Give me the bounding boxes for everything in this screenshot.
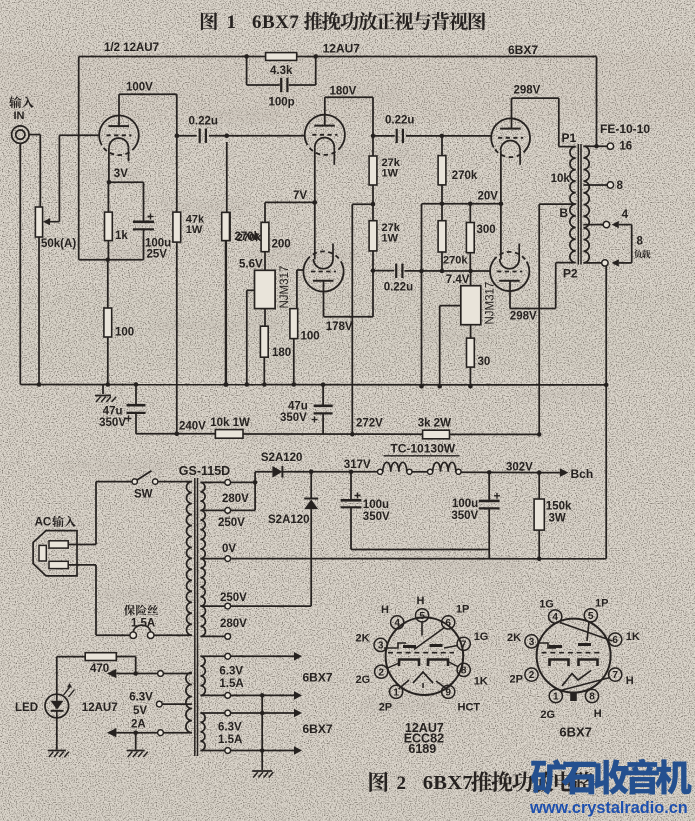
svg-text:FE-10-10: FE-10-10 [600,122,650,136]
svg-text:100u: 100u [363,499,389,511]
wire AC live [68,544,96,546]
LED emission arrows [64,688,70,696]
diode D1 S2A120 [272,466,282,478]
diode D2 S2A120 vertical [310,472,312,498]
svg-text:1G: 1G [474,631,489,643]
resistor 270k grid leak V2a [226,142,228,212]
resistor 100 feedback leg [107,260,109,308]
wire 100 to ground rail [293,339,295,385]
svg-text:1.5A: 1.5A [218,734,242,746]
wire secondary 16 tap [583,145,607,147]
T2 primary winding [570,147,576,205]
capacitor C2 0.22u upper [373,135,395,137]
resistor 27k 1W lower [369,221,377,251]
tap 250V upper [200,509,224,511]
wire V1a plate to 100V node [118,94,120,126]
svg-text:6BX7: 6BX7 [303,722,333,736]
capacitor 47u 350V mid [322,385,324,405]
pinout diagram 12AU7 base [386,617,464,695]
ground symbol 12AU7 heater [127,750,145,752]
wire U1 adj to ground rail [247,289,255,291]
wire C2 to 6BX7 upper grid [442,135,492,137]
svg-text:7: 7 [461,639,467,650]
svg-text:280V: 280V [222,493,249,505]
svg-text:1: 1 [553,692,559,703]
svg-text:HCT: HCT [458,702,481,714]
wire V2a cathode to 7V node [314,147,316,202]
svg-text:2G: 2G [540,709,555,721]
svg-text:10k: 10k [551,173,571,185]
tap heater 2b [200,750,224,752]
svg-text:240V: 240V [179,421,206,433]
svg-text:4: 4 [552,612,558,623]
svg-text:7: 7 [612,670,618,681]
svg-text:5: 5 [419,611,425,622]
svg-text:H: H [381,604,389,616]
resistor 1k cathode [107,182,109,212]
svg-text:1.5A: 1.5A [131,618,155,630]
svg-text:H: H [417,595,425,607]
svg-text:6BX7: 6BX7 [423,772,473,794]
svg-text:3V: 3V [114,168,128,180]
svg-text:1W: 1W [382,168,399,180]
wire AC neutral [68,564,96,566]
wire V2b grid lead [297,269,304,271]
arrow Bch output [539,472,560,474]
pinout 6BX7 pins [549,610,562,623]
svg-text:280V: 280V [220,618,247,630]
svg-text:2P: 2P [510,674,523,686]
svg-text:8: 8 [589,692,595,703]
tap 280V top [200,481,224,483]
fuse 1.5A [96,634,130,636]
T1 heater winding 6.3V first [200,656,205,695]
wire V1a cathode 3V node [108,148,110,183]
resistor 100 grid V2b [296,270,298,309]
svg-text:8: 8 [617,180,624,192]
svg-text:47u: 47u [103,406,123,418]
pinout 12AU7 pins [416,609,429,622]
svg-text:3k 2W: 3k 2W [418,418,451,430]
svg-text:IN: IN [14,110,25,122]
wire secondary 8 tap [583,184,607,186]
svg-text:4.3k: 4.3k [270,65,293,77]
svg-text:www.crystalradio.cn: www.crystalradio.cn [529,799,688,817]
tap heater 1a [200,655,224,657]
svg-text:180V: 180V [330,86,357,98]
svg-text:7.4V: 7.4V [446,274,470,286]
svg-text:302V: 302V [506,462,533,474]
wire 100V node down to coupling [176,94,178,136]
wire 7V node [265,201,315,203]
svg-text:2: 2 [529,670,535,681]
regulator NJM317 U1 [264,252,266,271]
wire 270k to 20V line [441,185,443,204]
wire V3 cathode to 20V line [500,150,502,204]
wire 100 to ground rail [107,337,109,385]
svg-text:2K: 2K [507,632,521,644]
tap 250V lower [200,605,224,607]
wire line A 20V [422,203,501,205]
switch SW [96,481,132,483]
svg-text:100V: 100V [126,82,153,94]
wire common tap ground riser [605,266,607,559]
capacitor 47u 350V left [135,385,137,405]
svg-text:1: 1 [393,687,399,698]
wire capacitor ground link [351,549,489,551]
triode V4 6BX7 lower inverted [490,260,529,291]
svg-text:9: 9 [445,687,451,698]
capacitor 100u 350V first [350,472,352,499]
svg-text:47u: 47u [288,401,308,413]
wire rectifier riser top [254,472,256,511]
svg-text:6.3V: 6.3V [129,692,153,704]
svg-text:P1: P1 [562,131,577,145]
svg-text:50k(A): 50k(A) [41,238,76,250]
resistor 150k 3W bleeder [538,473,540,499]
svg-text:20V: 20V [478,191,499,203]
svg-text:LED: LED [15,702,38,714]
svg-text:470: 470 [90,663,109,675]
svg-text:2P: 2P [379,702,392,714]
svg-text:3: 3 [529,637,535,648]
resistor 470 LED feed [135,657,137,674]
svg-text:12AU7: 12AU7 [82,702,118,714]
pinout diagram 6BX7 base [537,619,611,693]
svg-text:6BX7: 6BX7 [252,12,299,33]
watermark crystalradio logo [531,759,566,795]
wire B tap [539,203,576,205]
svg-text:1P: 1P [595,598,608,610]
svg-text:4: 4 [622,209,629,221]
svg-text:12AU7: 12AU7 [323,42,361,56]
svg-text:350V: 350V [363,511,390,523]
svg-text:1W: 1W [186,224,203,236]
tap 12AU7 heater bottom [164,732,192,734]
svg-text:3W: 3W [549,513,566,525]
svg-text:270k: 270k [443,255,468,267]
svg-text:NJM317: NJM317 [279,266,291,309]
triode V2a 12AU7 upper [305,115,345,147]
wire load loop 8 ohm [631,225,633,263]
svg-text:1K: 1K [626,631,640,643]
wire 270k to ground rail [225,241,227,385]
svg-text:2K: 2K [356,633,370,645]
wire wiper to grid [58,135,60,222]
svg-text:S2A120: S2A120 [261,452,303,464]
wire B+ 317V line [255,471,272,473]
svg-text:6BX7: 6BX7 [303,671,333,685]
wire V4 plate to 298V to P2 [509,281,511,309]
wire cathode riser to V4 cathode [500,204,502,260]
wire V2b plate to 178V node [323,281,325,317]
svg-text:1W: 1W [382,233,399,245]
svg-text:6189: 6189 [408,742,436,756]
svg-text:272V: 272V [356,418,383,430]
svg-text:2: 2 [378,667,384,678]
capacitor 100p [280,78,282,92]
ground symbol LED [48,750,66,752]
svg-text:H: H [626,675,634,687]
svg-text:250V: 250V [218,517,245,529]
svg-text:178V: 178V [326,321,353,333]
svg-text:0.22u: 0.22u [385,115,414,127]
svg-text:100: 100 [301,331,320,343]
scan tone bands [0,52,695,122]
svg-text:10k 1W: 10k 1W [210,417,250,429]
pinout 12AU7 internal structure [388,652,454,654]
wire 272V segment [243,433,423,435]
wire B+ riser to 272V line [351,204,353,434]
svg-text:1G: 1G [539,599,554,611]
svg-text:180: 180 [272,347,291,359]
resistor 270k lower bias [441,204,443,221]
ground symbol heater [252,770,272,772]
LED indicator [56,657,58,694]
svg-text:298V: 298V [514,85,541,97]
resistor 180 [264,309,266,327]
resistor 27k 1W upper [369,156,377,185]
wire 47k to 240V rail [176,242,178,434]
svg-text:1K: 1K [474,676,488,688]
wire 270k left to ground rail [225,241,227,385]
resistor 47k 1W plate load [176,136,178,212]
svg-text:6: 6 [612,635,618,646]
svg-text:300: 300 [477,224,496,236]
svg-text:298V: 298V [510,311,537,323]
wire jack ground drop [19,143,21,384]
resistor 4.3k [266,53,297,61]
connector AC plug [33,531,77,576]
wire D1 to choke [282,471,380,473]
svg-text:150k: 150k [546,501,572,513]
figure 2 caption [369,772,388,792]
svg-text:3: 3 [378,641,384,652]
T1 heater winding 6.3V second [200,713,205,751]
svg-text:6BX7: 6BX7 [508,43,538,57]
wire LED to ground [56,718,58,750]
svg-text:AC: AC [35,517,52,529]
svg-text:1k: 1k [115,230,128,242]
wire 150k to 0V rail [538,530,540,559]
capacitor 100u 25V [143,182,145,220]
pinout 6BX7 key nub [570,692,577,702]
svg-text:8: 8 [637,236,644,248]
svg-text:100: 100 [115,327,134,339]
svg-text:100u: 100u [452,498,478,510]
wire feedback left drop [78,57,80,260]
regulator NJM317 U2 [468,269,473,274]
capacitor C1 0.22u [177,135,197,137]
wiper arrow of pot [48,221,59,223]
wire B+ feed stub to 27k junction [352,203,373,205]
wire 302V line [461,471,539,473]
wire pot bottom to ground rail [38,237,40,385]
wire top feedback line [79,56,266,58]
svg-text:6: 6 [445,618,451,629]
triode V2b 12AU7 lower inverted [303,260,343,292]
resistor 270k upper bias [441,136,443,156]
wire C1 to V2a grid [227,135,305,137]
svg-text:5V: 5V [133,705,147,717]
svg-text:1P: 1P [456,604,469,616]
wire NFB from 16 tap to top [596,57,598,147]
resistor 200 bias [264,202,266,222]
capacitor C3 0.22u lower [373,270,394,272]
tap 12AU7 heater top [164,673,192,675]
svg-text:Bch: Bch [571,467,594,481]
svg-text:GS-115D: GS-115D [179,464,230,478]
svg-text:0V: 0V [222,543,236,555]
svg-text:S2A120: S2A120 [268,514,310,526]
wire 30 to ground rail [469,367,471,386]
wire 180 to ground rail [263,357,265,384]
resistor 270k splitter left [222,212,230,240]
wire secondary common tap [583,262,601,264]
svg-text:100p: 100p [269,97,295,109]
wire heater bottom ground riser [135,733,137,750]
svg-text:5.6V: 5.6V [239,259,263,271]
wire 100p bypass loop [246,57,248,86]
pinout 6BX7 internal structure [542,652,603,654]
svg-text:30: 30 [478,356,491,368]
svg-text:200: 200 [272,239,291,251]
node cathode feedback junction [108,259,143,261]
svg-text:6BX7: 6BX7 [559,725,592,740]
T1 heater winding 12AU7 [186,672,192,732]
T1 core [194,478,196,756]
svg-text:TC-10130W: TC-10130W [390,442,455,456]
svg-text:16: 16 [619,141,632,153]
svg-text:NJM317: NJM317 [485,282,497,325]
svg-text:317V: 317V [344,459,371,471]
svg-text:350V: 350V [451,510,478,522]
tap heater 2a [200,712,224,714]
title figure 1 caption [201,12,217,30]
wire V2a plate to 180V node [324,97,326,125]
svg-text:8: 8 [461,666,467,677]
capacitor 100u 350V second [488,472,490,500]
tap heater 1b [200,694,224,696]
triode V3 6BX7 upper [491,118,530,149]
svg-text:250V: 250V [220,592,247,604]
resistor 300 [469,204,471,223]
svg-text:270k: 270k [452,170,478,182]
resistor 30 [470,325,472,338]
tap 0V [200,558,224,560]
T1 HV secondary winding [200,482,205,510]
wire heater center ground riser [261,695,263,770]
svg-text:1: 1 [227,12,237,33]
svg-text:B: B [559,206,568,220]
wire riser line A to line B to rail [421,204,423,386]
tap 12AU7 heater 5V mid [162,703,192,705]
T2 core [577,144,579,265]
svg-text:SW: SW [134,489,153,501]
resistor 3k 2W [423,430,450,439]
svg-text:6.3V: 6.3V [219,666,243,678]
tap 280V bottom unused [200,635,224,637]
wire secondary 4 tap [583,224,603,226]
svg-text:2: 2 [397,773,407,794]
svg-text:P2: P2 [563,267,578,281]
resistor 10k 1W [215,430,243,439]
wire V2b cathode riser [314,202,316,259]
wire jack to pot [29,134,40,136]
label input IN [9,96,21,108]
svg-text:H: H [594,708,602,720]
potentiometer 50k(A) [35,207,42,237]
svg-text:350V: 350V [280,412,307,424]
svg-text:7V: 7V [293,190,307,202]
svg-text:4: 4 [394,618,400,629]
wire C3 to line B [404,270,489,272]
T2 secondary winding [583,146,589,263]
input jack J1 [12,126,29,143]
svg-text:5: 5 [588,611,594,622]
wire main ground rail [20,384,606,386]
ground symbol on rail [102,385,104,395]
svg-text:270k: 270k [237,232,262,244]
svg-text:6.3V: 6.3V [218,722,242,734]
svg-text:2G: 2G [356,674,371,686]
svg-text:25V: 25V [147,249,168,261]
svg-text:0.22u: 0.22u [189,116,218,128]
ghost smudges [60,90,610,710]
triode V1a 1/2 12AU7 [99,116,139,147]
svg-text:1/2 12AU7: 1/2 12AU7 [104,42,159,54]
svg-text:0.22u: 0.22u [384,282,413,294]
wire PSU 0V rail [231,558,606,560]
svg-text:2A: 2A [131,719,146,731]
wire U2 adj to ground rail [440,305,461,307]
wire V3 plate to 298V to P1 [511,98,513,129]
svg-text:350V: 350V [99,417,126,429]
wire 240V line [136,433,215,435]
T1 primary winding [158,481,192,483]
wire 302V to B vertical [450,433,540,435]
wire 27k stack vertical [372,97,374,317]
svg-text:1.5A: 1.5A [219,678,243,690]
